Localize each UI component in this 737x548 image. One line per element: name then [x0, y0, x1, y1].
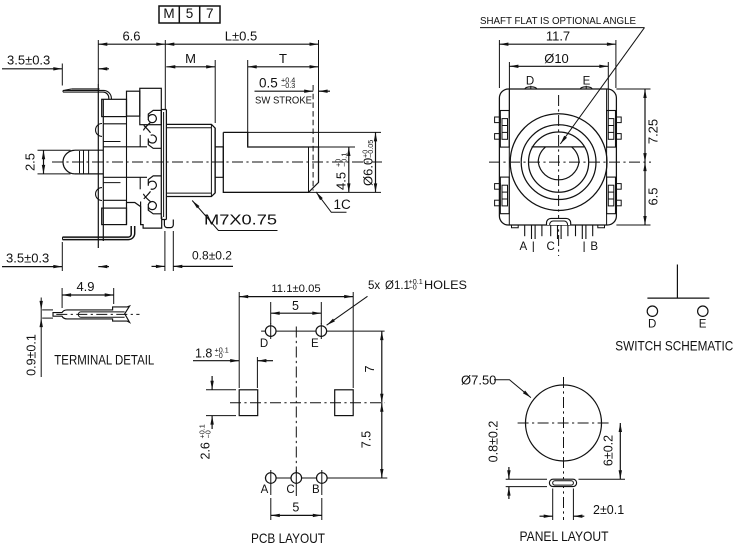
svg-text:−0.3: −0.3 — [281, 81, 295, 90]
side view: threaded bushing M7 — [166, 124, 215, 196]
svg-text:0.9±0.1: 0.9±0.1 — [24, 334, 38, 376]
svg-text:Ø7.50: Ø7.50 — [461, 373, 496, 388]
pcb layout: centerline vertical — [295, 327, 297, 487]
front view: side clips right top — [607, 111, 616, 148]
svg-text:SHAFT FLAT IS OPTIONAL ANGLE: SHAFT FLAT IS OPTIONAL ANGLE — [480, 16, 636, 27]
panel layout: centerlines — [563, 377, 565, 520]
panel layout: dimension 6±0.2 — [579, 478, 626, 480]
svg-text:2.6: 2.6 — [199, 442, 213, 459]
svg-text:L±0.5: L±0.5 — [225, 29, 257, 44]
svg-text:0.8±0.2: 0.8±0.2 — [192, 250, 232, 262]
pcb layout: dimension 5 (top) — [270, 302, 272, 324]
front view: top pin bumps D and E — [525, 87, 537, 89]
pcb layout: dimension 7 — [381, 331, 383, 403]
svg-text:C: C — [547, 241, 555, 253]
svg-text:E: E — [583, 76, 591, 88]
svg-text:−0.1: −0.1 — [339, 153, 348, 167]
switch schematic: contact E — [698, 306, 708, 316]
side view: terminal hole bulges on left plate — [96, 124, 102, 137]
front view: dimension Ø10 — [508, 62, 510, 118]
svg-text:6±0.2: 6±0.2 — [602, 435, 616, 466]
svg-text:A: A — [519, 241, 527, 253]
front view: side clips left top — [500, 111, 509, 148]
terminal detail: terminal drawing — [53, 306, 130, 322]
pcb layout: side pads — [239, 390, 258, 416]
svg-text:A: A — [261, 484, 269, 496]
side view: dimension M — [214, 60, 216, 123]
svg-text:Ø6.0: Ø6.0 — [360, 158, 375, 186]
svg-text:0.5: 0.5 — [259, 76, 278, 91]
svg-text:D: D — [260, 338, 268, 350]
side view: bottom tab — [164, 220, 173, 228]
title block M 5 7 — [159, 6, 220, 23]
front view: bottom pins A C B — [524, 225, 526, 236]
svg-text:7: 7 — [206, 6, 214, 21]
pcb layout: centerline horizontal (pads) — [230, 402, 385, 404]
svg-text:TERMINAL DETAIL: TERMINAL DETAIL — [54, 352, 154, 368]
svg-text:3.5±0.3: 3.5±0.3 — [7, 53, 50, 68]
side view: spring washer bottom — [143, 176, 161, 214]
svg-text:B: B — [590, 241, 598, 253]
svg-text:3.5±0.3: 3.5±0.3 — [6, 251, 49, 266]
svg-text:SWITCH SCHEMATIC: SWITCH SCHEMATIC — [615, 337, 733, 353]
front view: side clips left bottom — [500, 177, 509, 214]
svg-text:5: 5 — [292, 501, 299, 515]
pcb layout: dimension 11.1±0.05 — [238, 292, 240, 388]
front view: body outline — [499, 89, 616, 225]
front view: dimension 7.25 — [616, 88, 650, 90]
svg-text:7: 7 — [363, 365, 377, 372]
side view: label M7X0.75 with leader — [192, 201, 277, 231]
svg-text:6.5: 6.5 — [646, 187, 661, 205]
svg-text:C: C — [286, 484, 294, 496]
panel layout: anti-rotation slot — [549, 479, 576, 486]
svg-text:−0.05: −0.05 — [366, 140, 375, 158]
svg-text:5: 5 — [186, 6, 194, 21]
side view: dimension 0.8±0.2 (bottom tab) — [164, 231, 166, 271]
side view: shaft pressed position (dashed) — [312, 85, 314, 191]
panel layout: main hole circle — [526, 385, 602, 461]
svg-text:B: B — [312, 484, 320, 496]
front view: dimension 6.5 — [616, 224, 650, 226]
svg-text:M: M — [163, 6, 174, 21]
svg-text:1C: 1C — [334, 197, 352, 212]
side view: shaft neck — [215, 147, 223, 177]
side view: centerline — [52, 161, 382, 163]
side view: dimension 4.5 +0/-0.1 — [319, 146, 356, 148]
svg-text:11.7: 11.7 — [546, 29, 570, 44]
svg-text:SW STROKE: SW STROKE — [255, 96, 312, 107]
side view: mounting flange plate — [160, 110, 162, 219]
svg-text:−0: −0 — [409, 283, 417, 292]
svg-text:E: E — [699, 319, 707, 331]
svg-text:2±0.1: 2±0.1 — [593, 503, 624, 517]
switch schematic: push button symbol — [676, 265, 678, 299]
terminal detail: dimension 0.9±0.1 — [40, 298, 42, 378]
side view: label 1C with leader — [316, 192, 347, 212]
side view: encoder body left bracket — [97, 84, 99, 248]
svg-text:HOLES: HOLES — [424, 280, 467, 292]
svg-text:PCB LAYOUT: PCB LAYOUT — [251, 530, 325, 546]
side view: dimension 6.6 — [97, 40, 99, 84]
side view: terminal bottom pin (bold) — [63, 226, 132, 237]
svg-text:5x: 5x — [368, 280, 380, 292]
terminal detail: dimension 4.9 — [61, 288, 63, 308]
side view: dimension T — [247, 60, 249, 146]
svg-text:T: T — [279, 51, 287, 66]
svg-text:PANEL LAYOUT: PANEL LAYOUT — [520, 528, 609, 544]
svg-text:E: E — [311, 338, 319, 350]
svg-text:4.5: 4.5 — [334, 172, 349, 190]
svg-text:Ø10: Ø10 — [544, 51, 569, 66]
front view: side clips right bottom — [607, 177, 616, 214]
switch schematic: contact D — [647, 306, 657, 316]
svg-text:5: 5 — [292, 299, 299, 313]
side view: spring washer top — [148, 110, 161, 120]
svg-text:7.5: 7.5 — [360, 431, 374, 448]
side view: dimension Ø6.0 +0/-0.05 — [248, 131, 381, 133]
svg-text:11.1±0.05: 11.1±0.05 — [271, 283, 320, 295]
svg-text:4.9: 4.9 — [76, 279, 94, 294]
panel layout: dimension 0.8±0.2 — [506, 478, 547, 480]
side view: body blocks lower — [103, 199, 126, 201]
pcb layout: dimension 5 (bottom) — [270, 498, 272, 520]
side view: body blocks upper — [102, 99, 127, 116]
front view: shaft flat chord — [532, 146, 585, 148]
svg-text:Ø1.1: Ø1.1 — [385, 280, 410, 292]
svg-text:M: M — [185, 51, 196, 66]
pcb layout: dimension 7.5 — [327, 477, 387, 479]
svg-text:0.8±0.2: 0.8±0.2 — [487, 421, 501, 463]
svg-text:6.6: 6.6 — [122, 29, 140, 44]
pcb layout: holes A C B — [265, 477, 330, 479]
front view: dimension 11.7 — [498, 40, 500, 88]
svg-text:D: D — [526, 76, 534, 88]
svg-text:D: D — [648, 319, 656, 331]
pcb layout: dimension 2.6 +0/-0.1 — [206, 389, 236, 391]
front view: circles (body boss, bushing, shaft, chamfer) — [510, 114, 607, 211]
svg-text:−0: −0 — [203, 430, 212, 438]
front view: bottom center lug — [547, 218, 571, 225]
svg-text:7.25: 7.25 — [646, 119, 661, 144]
side view: terminal top pin — [72, 88, 100, 90]
panel layout: dimension 2±0.1 — [552, 489, 554, 521]
side view: actuator push shaft — [75, 150, 103, 174]
svg-text:2.5: 2.5 — [23, 153, 38, 171]
side view: shaft with flat — [223, 132, 318, 192]
pcb layout: holes D and E — [261, 330, 385, 332]
svg-text:M7X0.75: M7X0.75 — [204, 213, 277, 229]
side view: dimension L±0.5 — [318, 40, 320, 147]
side view: body middle slab — [103, 147, 147, 178]
front view: centerlines — [558, 95, 560, 256]
svg-text:−0: −0 — [215, 351, 223, 360]
side view: dimension 0.5 +0.4/-0.3 SW STROKE — [255, 90, 314, 92]
svg-text:1.8: 1.8 — [195, 347, 212, 361]
front view: bottom edge steps — [512, 225, 519, 228]
